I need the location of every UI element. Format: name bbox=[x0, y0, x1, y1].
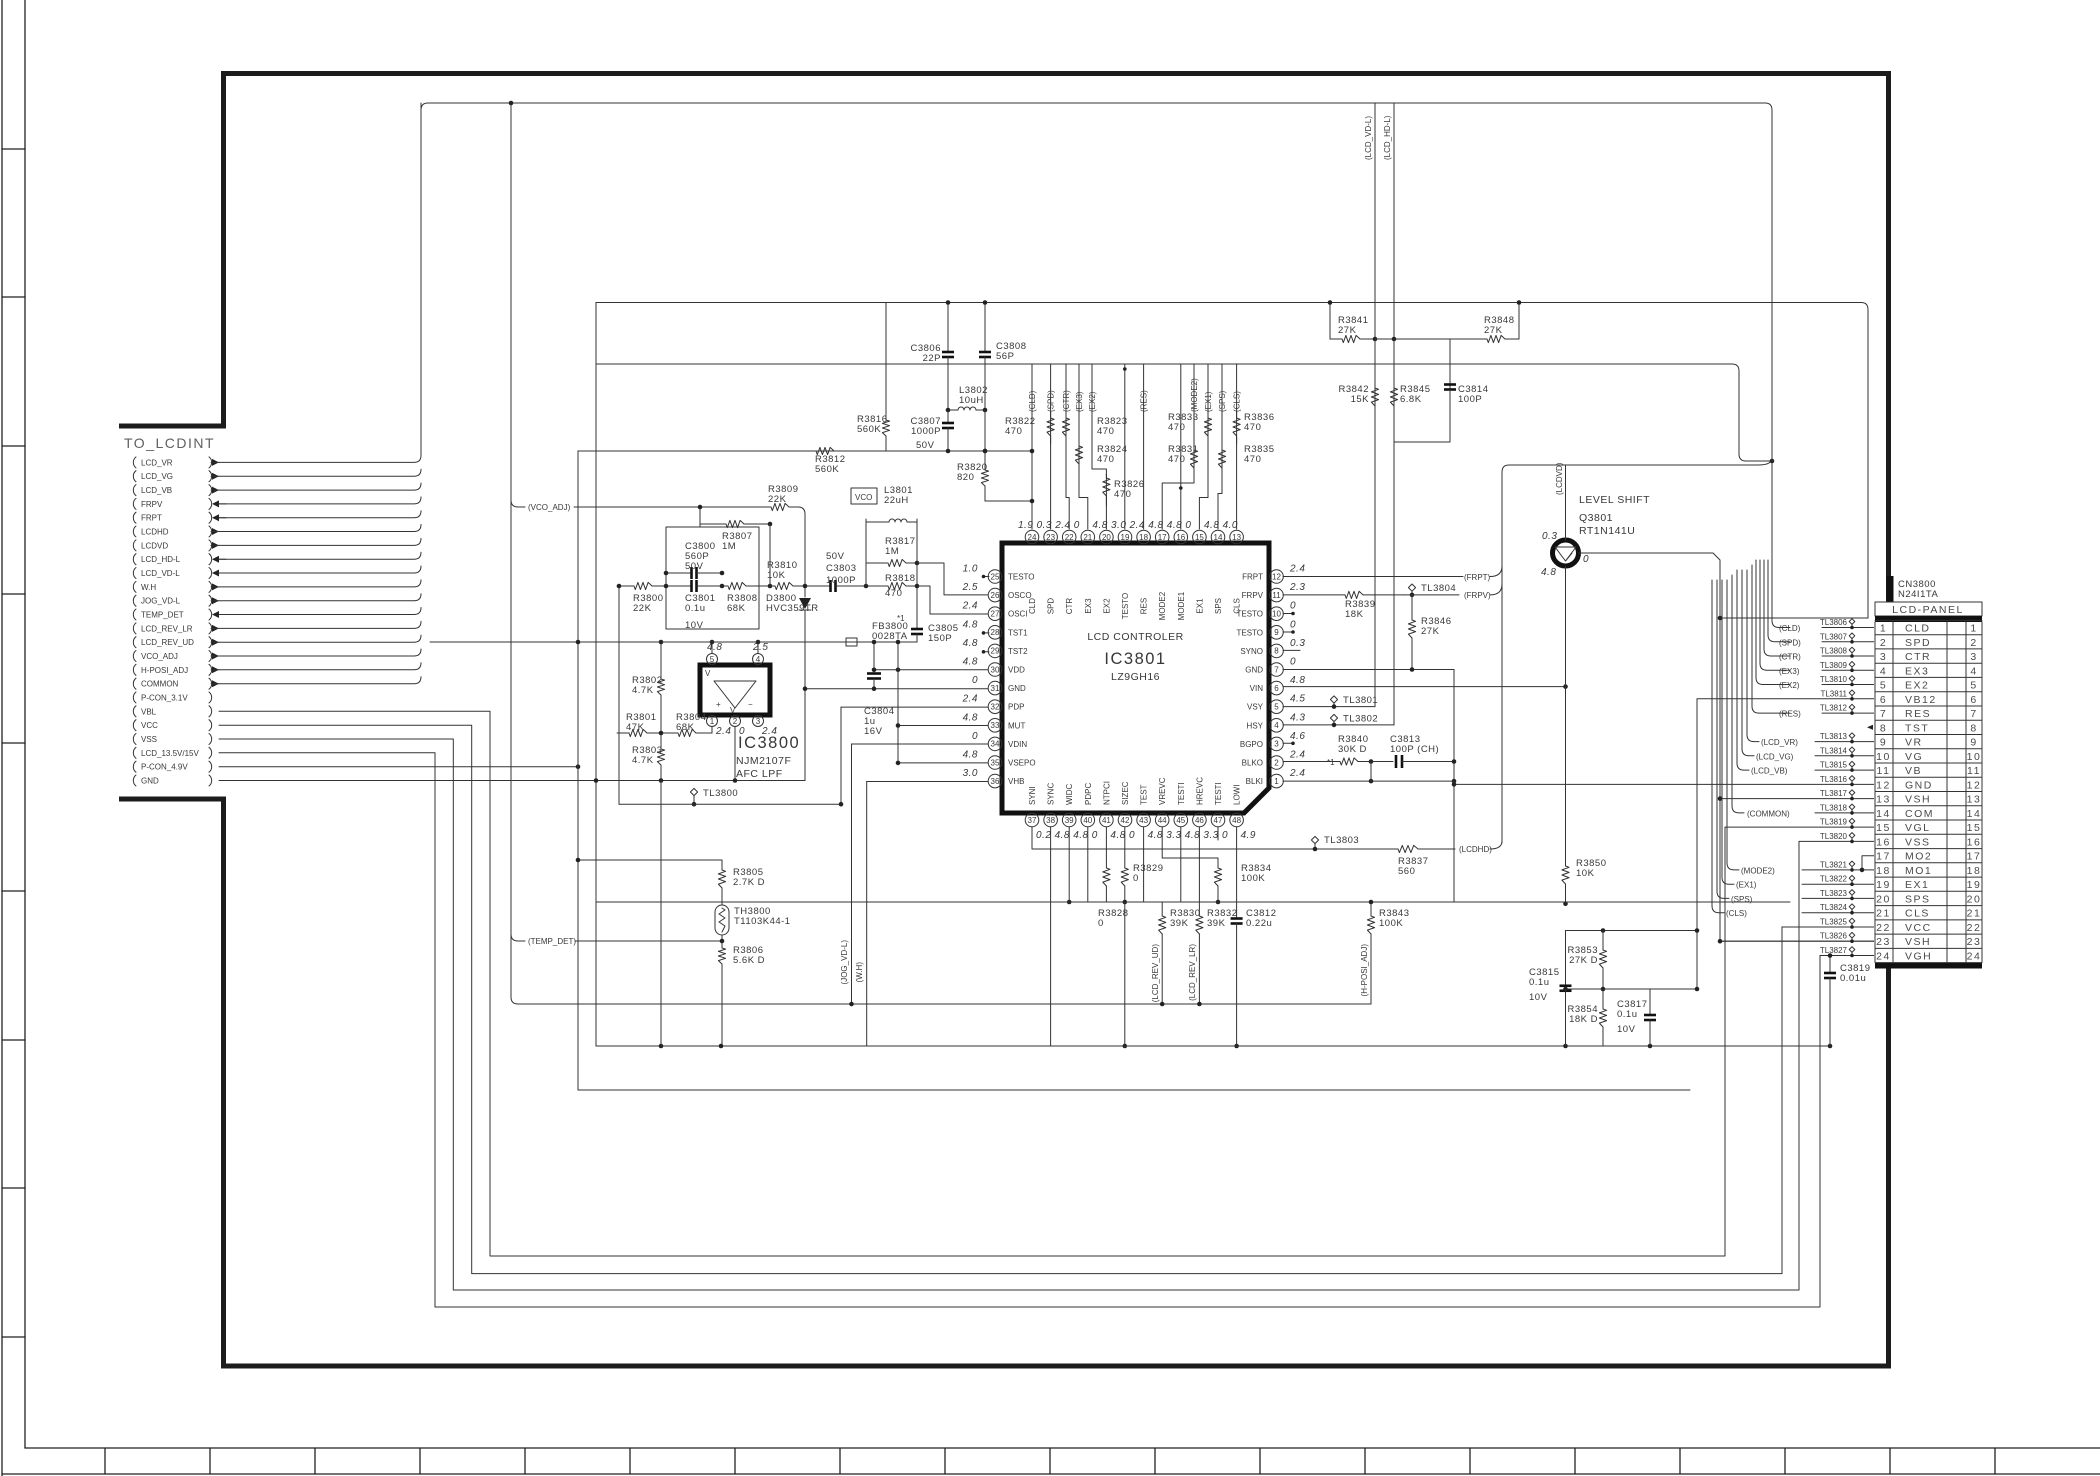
svg-text:(VCO_ADJ): (VCO_ADJ) bbox=[528, 503, 571, 512]
svg-text:100K: 100K bbox=[1241, 873, 1265, 884]
wire VGH row24 from loop bbox=[1820, 955, 1875, 957]
svg-text:2.4: 2.4 bbox=[1289, 750, 1305, 761]
svg-text:16: 16 bbox=[1176, 533, 1185, 542]
wire vertical x=985 to R3820 bbox=[984, 410, 986, 470]
svg-text:10K: 10K bbox=[1576, 868, 1595, 879]
svg-text:(LCD_HD-L): (LCD_HD-L) bbox=[1383, 115, 1392, 160]
IC3801 top pin 19 TESTO bbox=[1111, 520, 1132, 619]
IC3801 left pin 33 MUT bbox=[963, 712, 1026, 732]
svg-text:68K: 68K bbox=[727, 603, 746, 614]
IC3801 right pin 1 BLKI bbox=[1246, 768, 1306, 788]
svg-text:11: 11 bbox=[1272, 591, 1281, 600]
LCD-PANEL row 18 MO1 bbox=[1876, 865, 1981, 877]
svg-text:TL3819: TL3819 bbox=[1820, 818, 1848, 827]
svg-text:RES: RES bbox=[1140, 598, 1149, 614]
wire y=339 tie bbox=[1375, 338, 1450, 340]
connector pin LCD_VG bbox=[133, 471, 219, 482]
svg-text:13: 13 bbox=[1232, 533, 1241, 542]
wire R3805 link y=860 bbox=[578, 860, 722, 866]
LCD-PANEL row 9 VR bbox=[1880, 737, 1978, 749]
svg-text:34: 34 bbox=[991, 740, 1000, 749]
LCD-PANEL row 13 VSH bbox=[1876, 794, 1981, 806]
resistor R3816 bbox=[857, 303, 890, 452]
test point TL3801 bbox=[1330, 695, 1378, 709]
IC3801 top pin 21 EX3 bbox=[1074, 520, 1095, 614]
svg-text:VGH: VGH bbox=[1905, 951, 1932, 963]
wire EX1 pin15 vertical bbox=[1199, 364, 1208, 529]
svg-text:28: 28 bbox=[991, 628, 1000, 637]
wire VSH row13 branch bbox=[1720, 798, 1875, 800]
svg-text:4.8: 4.8 bbox=[1092, 520, 1107, 531]
svg-text:3.3: 3.3 bbox=[1166, 830, 1181, 841]
sheet bottom edge line bbox=[2, 1473, 2100, 1475]
svg-text:RT1N141U: RT1N141U bbox=[1579, 525, 1635, 537]
net label TEMP_DET bbox=[511, 934, 525, 941]
svg-text:8: 8 bbox=[1880, 722, 1887, 734]
svg-text:TST1: TST1 bbox=[1008, 628, 1028, 637]
svg-text:SYNC: SYNC bbox=[1047, 783, 1056, 805]
IC3801 left pin 34 VDIN bbox=[972, 731, 1027, 751]
IC3801 bottom pin 39 WIDC bbox=[1062, 783, 1088, 841]
wire SYNC pin38 down bbox=[1050, 827, 1052, 1046]
svg-text:22P: 22P bbox=[923, 353, 941, 364]
svg-text:TESTO: TESTO bbox=[1236, 610, 1263, 619]
wire R3809 corner down to D3800 node bbox=[798, 507, 805, 586]
svg-text:13: 13 bbox=[1876, 794, 1891, 806]
svg-text:NJM2107F: NJM2107F bbox=[736, 755, 791, 767]
resistor R3822 bbox=[1005, 412, 1054, 444]
wire opamp pin2 down to y=780 bbox=[734, 727, 736, 780]
wire HREVC pin46 down bbox=[1198, 827, 1200, 902]
svg-text:CTR: CTR bbox=[1905, 651, 1931, 663]
svg-text:10K: 10K bbox=[767, 570, 786, 581]
wire bus x=511 from top bus bbox=[511, 103, 518, 1004]
connector pin FRPV bbox=[133, 498, 226, 509]
wire left box vertical x=596 bbox=[595, 303, 597, 1047]
svg-text:470: 470 bbox=[1244, 454, 1261, 465]
LCD-PANEL row 19 EX1 bbox=[1876, 879, 1981, 891]
resistor R3850 bbox=[1562, 858, 1607, 904]
svg-text:HSY: HSY bbox=[1247, 721, 1264, 730]
op-amp pin 1 bbox=[707, 716, 718, 727]
IC3801 top pin 20 EX2 bbox=[1092, 520, 1113, 614]
svg-text:2.4: 2.4 bbox=[1129, 520, 1145, 531]
IC3801 top pin 15 EX1 bbox=[1185, 520, 1206, 614]
svg-text:3.0: 3.0 bbox=[963, 768, 978, 779]
svg-text:(SPD): (SPD) bbox=[1047, 390, 1056, 412]
resistor R3801 bbox=[617, 712, 661, 737]
wire R3820 to CLD vertical bbox=[985, 486, 1032, 501]
wire opamp pin1 down bbox=[711, 727, 713, 733]
wire bundle bend x=1772 to y=465 bus bbox=[1502, 458, 1772, 843]
svg-text:16: 16 bbox=[1876, 836, 1891, 848]
svg-text:(COMMON): (COMMON) bbox=[1747, 809, 1790, 818]
svg-text:FRPT: FRPT bbox=[141, 514, 162, 523]
svg-text:150P: 150P bbox=[928, 633, 952, 644]
wire SPS pin14 vertical bbox=[1218, 364, 1222, 529]
wire y=989 bbox=[1566, 988, 1698, 990]
capacitor C3803 bbox=[822, 580, 844, 592]
test point TL3821 bbox=[1820, 860, 1855, 871]
op-amp pin 3 bbox=[753, 716, 764, 727]
svg-text:SIZEC: SIZEC bbox=[1121, 781, 1130, 805]
svg-text:VDIN: VDIN bbox=[1008, 740, 1027, 749]
svg-text:TL3824: TL3824 bbox=[1820, 903, 1848, 912]
wire bus from TO_LCDINT rows to vertical bus bbox=[219, 455, 421, 683]
svg-text:18K D: 18K D bbox=[1569, 1014, 1598, 1025]
connector pin H-POSI_ADJ bbox=[133, 664, 219, 675]
svg-text:HREVC: HREVC bbox=[1195, 777, 1204, 805]
resistor R3834 bbox=[1214, 858, 1271, 902]
svg-text:27K: 27K bbox=[1338, 325, 1357, 336]
resistor R3853 bbox=[1568, 931, 1607, 990]
svg-text:TESTI: TESTI bbox=[1177, 782, 1186, 805]
test point TL3816 bbox=[1820, 775, 1855, 786]
connector pin LCD_HD-L bbox=[133, 554, 226, 565]
IC3801 left pin 25 TESTO bbox=[963, 564, 1035, 584]
test point TL3800 bbox=[690, 788, 738, 807]
svg-text:12: 12 bbox=[1876, 779, 1891, 791]
svg-text:TL3813: TL3813 bbox=[1820, 732, 1848, 741]
svg-text:40: 40 bbox=[1083, 816, 1092, 825]
svg-text:TESTO: TESTO bbox=[1236, 628, 1263, 637]
test point TL3827 bbox=[1820, 946, 1855, 957]
svg-text:TL3814: TL3814 bbox=[1820, 746, 1848, 755]
resistor R3842 bbox=[1339, 339, 1379, 707]
svg-text:0.3: 0.3 bbox=[1290, 638, 1305, 649]
svg-text:0.3: 0.3 bbox=[1037, 520, 1052, 531]
svg-text:TST: TST bbox=[1905, 722, 1929, 734]
wire GND row12 bbox=[1454, 781, 1875, 784]
svg-text:(JOG_VD-L): (JOG_VD-L) bbox=[840, 940, 849, 985]
svg-text:VREVC: VREVC bbox=[1158, 777, 1167, 805]
connector pin LCDHD bbox=[133, 526, 219, 537]
svg-text:5: 5 bbox=[710, 655, 715, 664]
wire bus y=1090 bbox=[578, 1089, 1690, 1091]
svg-text:2.4: 2.4 bbox=[962, 601, 978, 612]
wire CLS pin13 vertical bbox=[1236, 364, 1238, 529]
svg-text:OSCO: OSCO bbox=[1008, 591, 1032, 600]
svg-text:TL3810: TL3810 bbox=[1820, 675, 1848, 684]
svg-text:470: 470 bbox=[1097, 454, 1114, 465]
svg-text:3.3: 3.3 bbox=[1203, 830, 1218, 841]
wire GND pin31 bbox=[805, 688, 988, 690]
wire PDPC pin40 down bbox=[1087, 827, 1089, 902]
capacitor C3807 bbox=[911, 410, 955, 441]
svg-text:0: 0 bbox=[1583, 554, 1589, 565]
svg-text:17: 17 bbox=[1158, 533, 1167, 542]
resistor R3829 bbox=[1121, 827, 1163, 902]
svg-text:4.8: 4.8 bbox=[707, 642, 722, 653]
wire fan to table row1 CLD bbox=[1772, 458, 1790, 628]
op-amp pin 5 bbox=[707, 654, 718, 665]
svg-text:VCC: VCC bbox=[141, 721, 158, 730]
wire Q3801 collector to right bbox=[1579, 553, 1721, 618]
svg-text:SPD: SPD bbox=[1905, 637, 1931, 649]
svg-text:12: 12 bbox=[1967, 779, 1982, 791]
svg-text:470: 470 bbox=[1005, 426, 1022, 437]
svg-text:TESTO: TESTO bbox=[1008, 573, 1035, 582]
test point TL3803 bbox=[1311, 835, 1359, 851]
IC3801 right pin 10 TESTO bbox=[1236, 601, 1296, 621]
svg-text:MUT: MUT bbox=[1008, 721, 1025, 730]
svg-text:1.9: 1.9 bbox=[1018, 520, 1033, 531]
IC3801 bottom pin 46 HREVC bbox=[1193, 777, 1219, 841]
svg-text:H-POSI_ADJ: H-POSI_ADJ bbox=[141, 666, 188, 675]
svg-text:0: 0 bbox=[1129, 830, 1135, 841]
svg-text:CLD: CLD bbox=[1028, 598, 1037, 614]
LCD-PANEL row 3 CTR bbox=[1880, 651, 1978, 663]
resistor R3804 bbox=[661, 712, 712, 737]
svg-text:FRPV: FRPV bbox=[1242, 591, 1264, 600]
connector pin LCD_VD-L bbox=[133, 568, 226, 579]
resistor R3808 bbox=[722, 582, 770, 614]
svg-text:21: 21 bbox=[1083, 533, 1092, 542]
wire BLKI pin1 bbox=[1283, 780, 1454, 782]
svg-text:4.8: 4.8 bbox=[1541, 567, 1556, 578]
resistor R3841 bbox=[1330, 315, 1375, 343]
svg-text:VB: VB bbox=[1905, 765, 1922, 777]
svg-text:5: 5 bbox=[1274, 703, 1279, 712]
connector pin VCO_ADJ bbox=[133, 651, 219, 662]
svg-text:0: 0 bbox=[1098, 918, 1104, 929]
svg-text:(LCD_VD-L): (LCD_VD-L) bbox=[1364, 116, 1373, 160]
thermistor TH3800 bbox=[715, 905, 791, 935]
svg-text:(EX3): (EX3) bbox=[1075, 391, 1084, 412]
svg-text:(SPS): (SPS) bbox=[1731, 895, 1753, 904]
svg-text:TL3811: TL3811 bbox=[1820, 689, 1847, 698]
svg-text:Q3801: Q3801 bbox=[1579, 512, 1613, 524]
svg-text:45: 45 bbox=[1176, 816, 1185, 825]
IC3801 right pin 5 VSY bbox=[1247, 694, 1305, 714]
svg-text:8: 8 bbox=[1274, 647, 1279, 656]
connector pin P-CON_4.9V bbox=[133, 761, 211, 772]
svg-text:OSCI: OSCI bbox=[1008, 610, 1028, 619]
wire MODE2 pin17 vertical bbox=[1162, 364, 1194, 529]
svg-text:31: 31 bbox=[991, 684, 1000, 693]
svg-text:22: 22 bbox=[1967, 922, 1982, 934]
wire fan to table row4 (EX3) bbox=[1760, 560, 1790, 670]
svg-text:TESTI: TESTI bbox=[1214, 782, 1223, 805]
svg-text:18: 18 bbox=[1139, 533, 1148, 542]
IC3801 right pin 8 SYNO bbox=[1240, 638, 1305, 658]
resistor R3839 bbox=[1283, 591, 1404, 620]
svg-text:4.8: 4.8 bbox=[1185, 830, 1200, 841]
test point TL3812 bbox=[1820, 704, 1855, 715]
svg-text:12: 12 bbox=[1272, 572, 1281, 581]
svg-text:(FRPV): (FRPV) bbox=[1464, 591, 1491, 600]
wire FRPT pin12 bbox=[1283, 576, 1463, 578]
wire VB12 from regulator node bbox=[1697, 699, 1875, 989]
wire VDD pin30 bbox=[874, 669, 988, 671]
resistor R3817 bbox=[866, 536, 917, 567]
svg-text:3: 3 bbox=[1970, 651, 1977, 663]
IC3801 left pin 32 PDP bbox=[962, 694, 1025, 714]
svg-text:VCO_ADJ: VCO_ADJ bbox=[141, 652, 178, 661]
svg-text:9: 9 bbox=[1880, 737, 1887, 749]
svg-text:4.8: 4.8 bbox=[1167, 520, 1182, 531]
svg-text:560K: 560K bbox=[857, 424, 881, 435]
test point TL3811 bbox=[1820, 689, 1854, 700]
svg-text:CLD: CLD bbox=[1905, 623, 1931, 635]
wire COMMON row14 bbox=[1732, 575, 1744, 813]
IC3801 top pin 18 RES bbox=[1129, 520, 1151, 614]
svg-text:TL3806: TL3806 bbox=[1820, 618, 1848, 627]
svg-text:6.8K: 6.8K bbox=[1400, 394, 1422, 405]
connector pin LCD_13.5V/15V bbox=[133, 747, 211, 758]
svg-text:LCD_13.5V/15V: LCD_13.5V/15V bbox=[141, 749, 199, 758]
wire fan to table row3 (CTR) bbox=[1764, 560, 1790, 656]
svg-text:15: 15 bbox=[1876, 822, 1891, 834]
resistor R3826 bbox=[1103, 474, 1145, 506]
svg-text:IC3801: IC3801 bbox=[1104, 650, 1166, 668]
svg-text:TL3816: TL3816 bbox=[1820, 775, 1848, 784]
resistor R3800 bbox=[617, 582, 666, 614]
svg-text:TL3802: TL3802 bbox=[1343, 714, 1378, 725]
svg-text:VSH: VSH bbox=[1905, 794, 1931, 806]
resistor R3854 bbox=[1568, 989, 1607, 1046]
svg-text:470: 470 bbox=[1097, 426, 1114, 437]
svg-text:P-CON_3.1V: P-CON_3.1V bbox=[141, 694, 188, 703]
svg-text:15: 15 bbox=[1967, 822, 1982, 834]
svg-text:0: 0 bbox=[972, 675, 978, 686]
IC3801 bottom pin 38 SYNC bbox=[1044, 783, 1070, 841]
svg-text:N24I1TA: N24I1TA bbox=[1898, 589, 1938, 600]
svg-text:EX3: EX3 bbox=[1084, 598, 1093, 614]
svg-text:(CLD): (CLD) bbox=[1028, 390, 1037, 412]
svg-text:TL3808: TL3808 bbox=[1820, 647, 1848, 656]
IC3801 left pin 29 TST2 bbox=[963, 638, 1029, 658]
capacitor C3808 bbox=[979, 341, 1027, 362]
wire R3841 branch bbox=[1329, 303, 1331, 340]
LCD-PANEL row 6 VB12 bbox=[1880, 694, 1978, 706]
wire bus y=302.5 bbox=[596, 303, 1868, 619]
svg-text:LCD_REV_UD: LCD_REV_UD bbox=[141, 638, 194, 647]
svg-text:C3803: C3803 bbox=[826, 563, 857, 574]
svg-text:TL3801: TL3801 bbox=[1343, 695, 1378, 706]
svg-text:TL3827: TL3827 bbox=[1820, 946, 1848, 955]
wire MUT pin33 bbox=[898, 725, 988, 727]
svg-text:27K D: 27K D bbox=[1569, 955, 1598, 966]
sheet ruler bottom tick marks bbox=[105, 1448, 1995, 1474]
svg-text:(LCD_VB): (LCD_VB) bbox=[1751, 767, 1788, 776]
wire VREVC pin44 to R3834 bbox=[1162, 827, 1218, 858]
LCD-PANEL row 5 EX2 bbox=[1880, 680, 1978, 692]
wire TL3800 bus bbox=[619, 803, 841, 805]
IC3801 right pin 6 VIN bbox=[1250, 675, 1306, 695]
svg-text:VSS: VSS bbox=[141, 735, 157, 744]
svg-text:30: 30 bbox=[991, 665, 1000, 674]
LCD-PANEL row 14 COM bbox=[1876, 808, 1981, 820]
svg-text:2: 2 bbox=[733, 717, 738, 726]
svg-text:BLKI: BLKI bbox=[1246, 777, 1263, 786]
svg-text:36: 36 bbox=[991, 777, 1000, 786]
svg-text:MODE1: MODE1 bbox=[1177, 591, 1186, 620]
svg-text:(FRPT): (FRPT) bbox=[1464, 573, 1491, 582]
box around C3800 group bbox=[666, 527, 759, 629]
svg-text:0: 0 bbox=[1092, 830, 1098, 841]
svg-text:+: + bbox=[716, 700, 721, 709]
svg-text:AFC LPF: AFC LPF bbox=[736, 768, 783, 780]
svg-text:14: 14 bbox=[1214, 533, 1223, 542]
svg-text:2.4: 2.4 bbox=[715, 726, 731, 737]
svg-text:50V: 50V bbox=[685, 561, 704, 572]
wire BLKO-BLKI tie x=1371 bbox=[1370, 762, 1372, 782]
svg-text:2.7K D: 2.7K D bbox=[733, 877, 765, 888]
test point TL3825 bbox=[1820, 918, 1855, 929]
svg-text:4: 4 bbox=[1274, 721, 1279, 730]
svg-text:50V: 50V bbox=[916, 440, 935, 451]
connector pin GND bbox=[133, 775, 211, 786]
svg-text:100P: 100P bbox=[1458, 394, 1482, 405]
svg-text:(LCD_REV_LR): (LCD_REV_LR) bbox=[1188, 944, 1197, 1001]
test point TL3813 bbox=[1820, 732, 1855, 743]
svg-text:11: 11 bbox=[1967, 765, 1981, 777]
svg-text:TL3822: TL3822 bbox=[1820, 875, 1848, 884]
svg-text:42: 42 bbox=[1121, 816, 1130, 825]
capacitor C3819 bbox=[1829, 955, 1831, 969]
svg-text:50V: 50V bbox=[826, 551, 845, 562]
capacitor C3819 bbox=[1824, 963, 1871, 984]
wire bus y=642 bbox=[430, 641, 846, 643]
capacitor C3804 bbox=[864, 642, 895, 737]
svg-text:22uH: 22uH bbox=[884, 495, 909, 506]
LCD-PANEL table top bar bbox=[1875, 616, 1982, 622]
wire VSEPO pin35 bbox=[898, 762, 988, 764]
LCD-PANEL row 16 VSS bbox=[1876, 836, 1981, 848]
sheet ruler left tick marks bbox=[2, 149, 25, 1337]
IC3801 bottom pin 45 TESTI bbox=[1174, 782, 1200, 841]
svg-text:22K: 22K bbox=[768, 494, 787, 505]
svg-text:35: 35 bbox=[991, 758, 1000, 767]
op-amp pin 2 bbox=[730, 716, 741, 727]
LCD-PANEL row 15 VGL bbox=[1876, 822, 1981, 834]
svg-text:0: 0 bbox=[1222, 830, 1228, 841]
test point TL3815 bbox=[1820, 761, 1855, 772]
svg-text:38: 38 bbox=[1046, 816, 1055, 825]
wire R3802 column down bbox=[660, 780, 662, 1046]
svg-text:CLS: CLS bbox=[1905, 908, 1930, 920]
net label VCO_ADJ bbox=[511, 500, 525, 507]
svg-text:WIDC: WIDC bbox=[1065, 783, 1074, 805]
svg-text:7: 7 bbox=[1274, 665, 1279, 674]
svg-text:1.0: 1.0 bbox=[963, 564, 978, 575]
svg-text:TL3812: TL3812 bbox=[1820, 704, 1848, 713]
svg-text:5: 5 bbox=[1880, 680, 1887, 692]
resistor R3837 bbox=[1390, 845, 1430, 877]
svg-text:22: 22 bbox=[1876, 922, 1891, 934]
svg-text:30K D: 30K D bbox=[1338, 744, 1367, 755]
IC3801 top pin 22 CTR bbox=[1054, 520, 1076, 614]
connector pin VCC bbox=[133, 720, 211, 731]
resistor R3820 bbox=[957, 451, 989, 501]
svg-text:TEST: TEST bbox=[1140, 784, 1149, 805]
svg-text:2.4: 2.4 bbox=[962, 694, 978, 705]
svg-text:4.8: 4.8 bbox=[963, 712, 978, 723]
test point TL3809 bbox=[1820, 661, 1855, 672]
wire VIN pin6 bbox=[1283, 686, 1566, 688]
wire SYNO pin8 stub bbox=[1283, 649, 1300, 651]
wire WIDC pin39 down bbox=[1068, 827, 1070, 902]
svg-text:TL3818: TL3818 bbox=[1820, 803, 1848, 812]
svg-text:4.6: 4.6 bbox=[1290, 731, 1305, 742]
wire TST1 pin28 stub bbox=[983, 632, 989, 634]
wire VSY pin5 to TL3801 bbox=[1283, 706, 1375, 708]
svg-text:0.22u: 0.22u bbox=[1246, 918, 1272, 929]
IC3801 left pin 31 GND bbox=[972, 675, 1026, 695]
svg-text:0.01u: 0.01u bbox=[1840, 973, 1866, 984]
test point TL3822 bbox=[1820, 875, 1855, 886]
